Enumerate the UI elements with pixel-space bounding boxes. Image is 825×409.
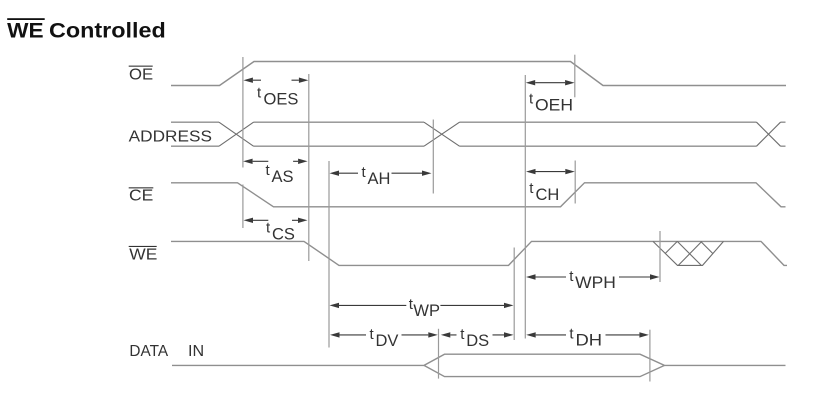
svg-text:Controlled: Controlled	[49, 19, 166, 42]
svg-text:OES: OES	[264, 91, 299, 109]
label tAS	[266, 162, 294, 186]
address crossover X2	[424, 122, 460, 146]
tDS arrow	[450, 334, 504, 336]
tAH right arrowhead	[422, 171, 432, 176]
tOES arrow	[253, 79, 299, 81]
guide line L4b (x=438.5 data valid divider)	[438, 329, 440, 379]
guide line L6 (x=660)	[659, 231, 661, 282]
svg-text:DV: DV	[376, 332, 399, 350]
label tOEH	[529, 91, 573, 115]
label tAH	[362, 164, 391, 188]
tCS left arrowhead	[244, 218, 254, 223]
tDH right arrowhead	[639, 332, 649, 337]
tAS left arrowhead	[243, 159, 253, 164]
label tOES	[257, 85, 298, 109]
svg-text:WPH: WPH	[575, 274, 616, 292]
tick OE fall (x=575)	[574, 55, 576, 98]
guide line L1 (x=243)	[242, 57, 244, 228]
tDV right arrowhead	[428, 332, 438, 337]
tAS arrow	[253, 160, 299, 162]
label tDV	[370, 326, 399, 350]
svg-text:WE: WE	[7, 19, 43, 42]
tCH left arrowhead	[526, 169, 536, 174]
svg-text:CH: CH	[536, 186, 560, 204]
tCS right arrowhead	[298, 218, 308, 223]
tWPH arrow	[536, 276, 651, 278]
svg-text:WP: WP	[413, 302, 440, 320]
waveform DATA IN	[172, 354, 786, 376]
label tDH	[569, 326, 602, 350]
tWP left arrowhead	[330, 303, 340, 308]
guide line L4 (x=433)	[432, 120, 434, 194]
tAS right arrowhead	[298, 159, 308, 164]
tDV arrow	[340, 334, 429, 336]
svg-text:DATA: DATA	[129, 343, 168, 360]
tOES right arrowhead	[299, 78, 309, 83]
tDH arrow	[536, 334, 640, 336]
label tCH	[529, 180, 559, 204]
tWPH right arrowhead	[650, 274, 660, 279]
tWP right arrowhead	[504, 303, 514, 308]
tOEH arrow	[535, 82, 565, 84]
tAH left arrowhead	[330, 171, 340, 176]
address crossover X1	[219, 122, 254, 146]
guide line L2 (x=309)	[308, 74, 310, 261]
svg-text:DS: DS	[466, 332, 489, 350]
svg-text:WE: WE	[129, 246, 157, 263]
svg-text:DH: DH	[576, 332, 603, 350]
address crossover X3	[757, 122, 781, 146]
tDV left arrowhead	[330, 332, 340, 337]
title WE Controlled	[7, 18, 166, 42]
svg-text:OEH: OEH	[535, 97, 573, 115]
signal label OE	[129, 66, 153, 84]
signal label DATA IN	[129, 343, 204, 360]
tCH arrow	[536, 171, 566, 173]
waveform ADDRESS bus	[171, 122, 786, 146]
address top rail	[171, 121, 757, 123]
vertical guide lines	[243, 55, 660, 382]
tWP arrow	[339, 304, 504, 306]
WE dont-care hatch	[653, 241, 724, 265]
tOES left arrowhead	[243, 78, 253, 83]
label tWPH	[569, 268, 616, 292]
address bottom rail	[171, 145, 757, 147]
label tDS	[460, 326, 489, 350]
svg-text:CS: CS	[272, 226, 295, 244]
guide line L7 (x=650)	[649, 330, 651, 382]
tCH right arrowhead	[565, 169, 575, 174]
guide line L3 (x=329)	[328, 161, 330, 348]
svg-text:IN: IN	[188, 343, 204, 360]
tCS arrow	[253, 219, 298, 221]
dimension arrows	[253, 80, 650, 335]
signal label CE	[129, 187, 154, 204]
label tWP	[409, 296, 440, 320]
address right stubs	[781, 122, 786, 146]
signal label WE	[129, 246, 158, 263]
label tCS	[266, 220, 295, 244]
tOEH left arrowhead	[526, 80, 536, 85]
guide line L5 (x=525.3)	[524, 75, 526, 339]
waveform WE	[171, 241, 787, 265]
tDS left arrowhead	[441, 332, 451, 337]
waveform CE	[171, 183, 786, 207]
svg-text:ADDRESS: ADDRESS	[129, 129, 212, 146]
tOEH right arrowhead	[565, 80, 575, 85]
waveform OE	[171, 62, 786, 86]
tick WE rise (x=514)	[513, 248, 515, 341]
svg-text:CE: CE	[129, 188, 153, 205]
tAH arrow	[339, 172, 422, 174]
tDS right arrowhead	[504, 332, 514, 337]
svg-text:AS: AS	[272, 168, 294, 186]
svg-text:OE: OE	[129, 66, 153, 83]
tick CE rise (x=575)	[574, 161, 576, 204]
svg-text:AH: AH	[368, 170, 391, 188]
tWPH left arrowhead	[526, 274, 536, 279]
tDH left arrowhead	[526, 332, 536, 337]
timing labels	[257, 85, 616, 351]
